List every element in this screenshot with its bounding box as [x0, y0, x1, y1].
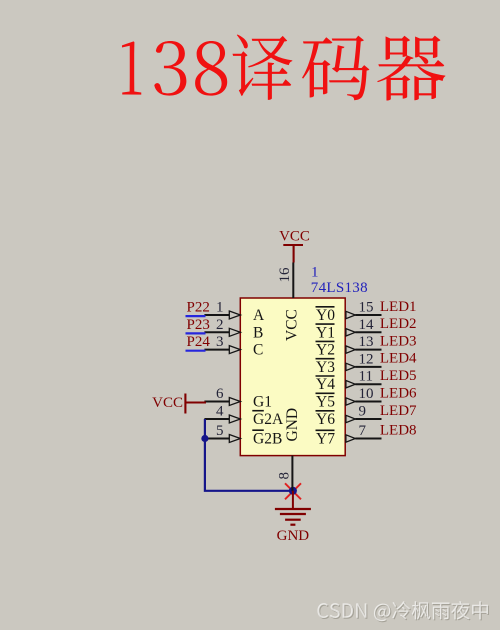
svg-text:10: 10 — [359, 386, 374, 402]
svg-text:Y3: Y3 — [316, 359, 335, 376]
pin name G2B — [252, 430, 282, 447]
junction on pin 5 wire — [201, 435, 208, 442]
svg-text:GND: GND — [277, 528, 310, 544]
svg-text:11: 11 — [359, 369, 373, 385]
pin 13 — [346, 334, 382, 353]
pin 1 — [204, 300, 240, 320]
pin 7 — [346, 423, 382, 442]
svg-text:74LS138: 74LS138 — [311, 280, 368, 296]
svg-text:Y5: Y5 — [316, 394, 335, 411]
svg-text:8: 8 — [277, 472, 293, 480]
pin name G2A — [252, 411, 284, 428]
pin name Y1 — [316, 324, 335, 341]
svg-text:VCC: VCC — [279, 228, 310, 244]
svg-text:Y7: Y7 — [316, 431, 335, 448]
svg-text:LED7: LED7 — [380, 403, 417, 419]
watermark CSDN @冷枫雨夜中 — [317, 601, 489, 622]
svg-text:A: A — [253, 307, 265, 324]
svg-text:LED3: LED3 — [380, 333, 417, 349]
svg-text:4: 4 — [216, 404, 224, 420]
svg-text:2: 2 — [216, 317, 224, 333]
svg-text:GND: GND — [284, 408, 301, 442]
power port VCC left — [152, 394, 206, 414]
pin 11 — [346, 369, 382, 388]
svg-text:14: 14 — [359, 317, 375, 333]
svg-text:1: 1 — [311, 264, 319, 280]
svg-text:LED6: LED6 — [380, 385, 417, 401]
pin 9 — [346, 404, 382, 423]
svg-text:Y6: Y6 — [316, 411, 335, 428]
svg-text:G1: G1 — [253, 394, 272, 411]
svg-text:B: B — [253, 324, 263, 341]
svg-text:G2B: G2B — [253, 431, 282, 448]
IC body U1 74LS138 — [240, 298, 345, 456]
svg-text:7: 7 — [359, 423, 367, 439]
pin 3 — [204, 334, 240, 354]
pin name Y7 — [316, 430, 336, 447]
svg-text:P22: P22 — [187, 300, 210, 316]
wire P23 stub — [186, 332, 206, 334]
wire P24 stub — [186, 350, 206, 352]
svg-text:Y1: Y1 — [316, 324, 335, 341]
pin name Y6 — [316, 411, 336, 428]
svg-text:VCC: VCC — [152, 395, 183, 411]
svg-text:13: 13 — [359, 334, 374, 350]
wire P22 stub — [186, 315, 206, 317]
svg-text:Y2: Y2 — [316, 342, 335, 359]
pin 4 — [204, 404, 240, 424]
svg-text:LED5: LED5 — [380, 368, 417, 384]
ground symbol GND — [275, 491, 311, 544]
svg-text:5: 5 — [216, 423, 224, 439]
svg-text:P23: P23 — [187, 317, 210, 333]
pin 16 (VCC) — [277, 263, 293, 299]
pin name Y0 — [316, 307, 336, 324]
pin 15 — [346, 300, 382, 319]
pin name Y5 — [316, 393, 336, 410]
pin 14 — [346, 317, 382, 336]
svg-text:LED8: LED8 — [380, 422, 417, 438]
pin 5 — [204, 423, 240, 443]
svg-text:LED2: LED2 — [380, 316, 417, 332]
pin 6 — [204, 386, 240, 406]
pin 12 — [346, 351, 382, 370]
svg-text:16: 16 — [277, 267, 293, 283]
pin name G1 — [253, 394, 272, 411]
svg-text:12: 12 — [359, 351, 374, 367]
pin name Y4 — [316, 376, 336, 393]
junction at ground node — [289, 487, 297, 495]
svg-text:6: 6 — [216, 386, 224, 402]
pin 10 — [346, 386, 382, 405]
power port VCC top — [279, 228, 310, 262]
svg-text:Y4: Y4 — [316, 376, 335, 393]
wire G2A/G2B to ground net — [205, 419, 293, 491]
svg-text:LED4: LED4 — [380, 351, 417, 367]
svg-text:VCC: VCC — [283, 309, 300, 341]
svg-text:G2A: G2A — [253, 411, 284, 428]
svg-text:3: 3 — [216, 334, 224, 350]
pin 2 — [204, 317, 240, 337]
pin name Y2 — [316, 341, 335, 358]
no-ERC marker X — [285, 483, 301, 499]
pin 8 (GND) — [277, 456, 293, 491]
svg-text:15: 15 — [359, 300, 374, 316]
svg-text:LED1: LED1 — [380, 299, 417, 315]
svg-text:P24: P24 — [187, 334, 211, 350]
svg-text:Y0: Y0 — [316, 307, 335, 324]
pin name Y3 — [316, 359, 336, 376]
svg-text:9: 9 — [359, 404, 367, 420]
svg-text:C: C — [253, 342, 263, 359]
svg-text:1: 1 — [216, 300, 224, 316]
title text 138译码器 — [122, 34, 445, 100]
